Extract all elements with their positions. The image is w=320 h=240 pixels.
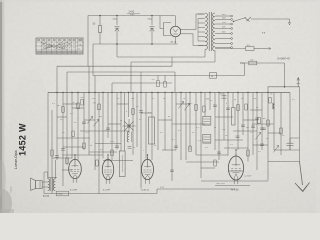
svg-text:50k: 50k bbox=[131, 98, 134, 100]
wire bbox=[158, 76, 165, 82]
label a b bbox=[262, 33, 266, 35]
label ECH 4 b bbox=[103, 190, 110, 192]
wire heater lead right bbox=[214, 51, 216, 63]
wire mains line bbox=[251, 18, 290, 20]
wire main bus bbox=[48, 92, 290, 94]
wire y83 left drop bbox=[111, 83, 113, 93]
resistor bbox=[258, 118, 266, 124]
capacitor bbox=[255, 118, 259, 120]
IF coil lower bbox=[203, 135, 211, 144]
transformer mains tap 110 bbox=[215, 32, 233, 35]
capacitor bbox=[241, 125, 245, 127]
tube socket voltage table bbox=[36, 38, 83, 54]
loudspeaker bbox=[31, 178, 43, 190]
svg-text:25k: 25k bbox=[222, 129, 225, 131]
resistor bbox=[81, 100, 84, 106]
output transformer bbox=[48, 178, 56, 191]
label +50u bbox=[112, 18, 118, 20]
svg-text:E BF11: E BF11 bbox=[142, 190, 150, 192]
wire left drop to main bus bbox=[56, 66, 58, 92]
wire tube V2 top cap bbox=[107, 154, 108, 159]
svg-text:6,3V: 6,3V bbox=[110, 141, 115, 143]
resistor bbox=[66, 158, 69, 164]
svg-text:47k: 47k bbox=[206, 99, 209, 101]
boxed label perm dyn bbox=[56, 191, 68, 196]
svg-text:Loewe-Opta: Loewe-Opta bbox=[14, 150, 18, 169]
IF coil upper bbox=[203, 117, 211, 126]
junction bbox=[116, 43, 153, 45]
wire heater drop x117 bbox=[116, 44, 118, 57]
wire bus y66 extension bbox=[88, 65, 172, 67]
svg-text:8k: 8k bbox=[168, 116, 170, 118]
wire speaker to OT top bbox=[42, 181, 48, 183]
label AZ 11 bbox=[171, 40, 177, 43]
resistor bbox=[132, 106, 140, 114]
svg-text:B 724: B 724 bbox=[43, 196, 50, 198]
wire speaker to OT bottom bbox=[42, 186, 48, 188]
fuse F1 0.8A bbox=[246, 45, 255, 51]
wire heater line y57 bbox=[117, 56, 205, 58]
resistor tall output bbox=[232, 108, 235, 126]
label D=54B7=57 bbox=[278, 58, 291, 61]
wire rectifier anode to HV top bbox=[181, 14, 205, 30]
capacitor bus bbox=[220, 94, 227, 99]
svg-text:P.Dyn: P.Dyn bbox=[58, 194, 63, 196]
resistor bbox=[93, 103, 100, 110]
capacitor C elko +50u second bbox=[150, 16, 155, 45]
transformer primary tap wire bbox=[198, 13, 205, 15]
resistor bbox=[237, 105, 240, 111]
wire bus into shield bbox=[160, 16, 164, 29]
wire bottom rail step bbox=[156, 189, 158, 194]
svg-text:2×50: 2×50 bbox=[129, 11, 135, 14]
label ECH 4 bbox=[70, 189, 77, 191]
wire rectifier anode2 to HV bottom bbox=[180, 34, 204, 46]
wire bus y83 bbox=[112, 82, 172, 84]
tube V2 ECH4 bbox=[102, 157, 113, 184]
capacitor bbox=[260, 128, 264, 130]
brand Loewe-Opta (rotated) bbox=[14, 150, 18, 169]
tube V4 AL4 output bbox=[228, 154, 243, 185]
tube V1 ECH4 bbox=[69, 157, 82, 183]
bus junction dots bbox=[56, 92, 268, 93]
wire y72 left drop bbox=[66, 72, 68, 93]
transformer primary tap wire bbox=[198, 27, 205, 29]
svg-text:4k: 4k bbox=[90, 145, 92, 147]
resistor bbox=[267, 120, 270, 126]
svg-text:2k: 2k bbox=[133, 147, 135, 149]
svg-text:Uab 700V: Uab 700V bbox=[216, 183, 226, 185]
resistor bbox=[83, 143, 86, 149]
capacitor bbox=[106, 128, 110, 130]
svg-text:1M: 1M bbox=[246, 127, 249, 129]
transformer primary tap wire bbox=[198, 18, 205, 20]
capacitor bbox=[174, 146, 178, 148]
resistor bbox=[111, 150, 114, 156]
capacitor bbox=[213, 105, 217, 107]
rectifier GL box bbox=[210, 73, 217, 79]
resistor lamp box 0.4 bbox=[249, 59, 257, 64]
resistor bbox=[203, 106, 206, 112]
wire y75 corner up right bbox=[240, 63, 245, 76]
wire OT primary up2 bbox=[44, 172, 48, 194]
tube V3 EBF11 bbox=[142, 157, 154, 184]
resistor bbox=[72, 131, 75, 137]
transformer mains tap aux bbox=[215, 47, 233, 49]
transformer mains tap aux bbox=[215, 38, 233, 40]
label B 724 bbox=[43, 196, 50, 198]
svg-text:2k: 2k bbox=[234, 99, 236, 101]
svg-text:1452 W: 1452 W bbox=[18, 123, 28, 156]
capacitor bbox=[260, 144, 264, 146]
title model 1452 W (rotated) bbox=[18, 123, 28, 156]
wire tap collect vertical bbox=[197, 19, 199, 42]
resistor bbox=[280, 128, 283, 134]
capacitor bbox=[262, 128, 266, 130]
label voltage note bbox=[216, 183, 226, 185]
resistor bbox=[245, 104, 248, 110]
capacitor on right feed bbox=[287, 138, 300, 150]
wire tube V4 top cap bbox=[235, 149, 236, 156]
small print (rotated) bbox=[11, 186, 13, 193]
power transformer TR1 bbox=[205, 12, 215, 51]
wire return drop bbox=[92, 44, 94, 76]
wire fuse line bbox=[215, 48, 267, 50]
svg-text:1M: 1M bbox=[99, 116, 102, 118]
transformer primary tap wire bbox=[198, 31, 205, 33]
wire ground return rail bbox=[93, 43, 178, 45]
capacitor bbox=[61, 149, 65, 151]
pot arrow bbox=[255, 133, 260, 140]
wire y66 up to heater line bbox=[171, 57, 173, 66]
wire y72 right drop bbox=[174, 72, 176, 93]
pot arrow bbox=[184, 104, 189, 111]
wire mesh horizontal links bbox=[48, 104, 290, 178]
rectifier tube AZ11 bbox=[170, 16, 180, 45]
wire tube V3 top cap bbox=[147, 154, 148, 159]
wire vertical mesh columns bbox=[48, 66, 290, 193]
wire lamp line bbox=[240, 62, 285, 64]
wire bus y75.5 bbox=[93, 75, 245, 77]
transformer mains tap 240 bbox=[215, 14, 233, 17]
label 2x50uF bbox=[127, 11, 140, 17]
wire right feed down bbox=[299, 87, 301, 162]
IF box tall mid bbox=[149, 117, 155, 144]
transformer primary tap wire bbox=[198, 40, 205, 42]
wire bus y72 bbox=[67, 71, 175, 73]
shield bracket around rectifier bbox=[164, 23, 172, 36]
label AL4 bbox=[231, 189, 239, 192]
svg-text:6,3V: 6,3V bbox=[160, 187, 165, 189]
junction bbox=[99, 15, 153, 17]
label bottom note bbox=[160, 187, 165, 189]
resistor bbox=[190, 103, 198, 110]
earth arrow (chassis) bbox=[295, 162, 310, 192]
coil bbox=[127, 132, 132, 143]
arrow fuse end bbox=[267, 47, 271, 50]
wire OT primary up bbox=[54, 160, 56, 179]
wire B+ top rail bbox=[88, 15, 175, 17]
junction bbox=[284, 86, 286, 88]
capacitor bbox=[139, 111, 143, 113]
wire heater drop x131 bbox=[130, 62, 132, 93]
pot arrow bbox=[273, 146, 278, 153]
wire bottom rail left bbox=[44, 193, 157, 195]
wire mains drop bbox=[288, 19, 290, 25]
svg-text:Funkw.: Funkw. bbox=[11, 186, 13, 193]
capacitor bbox=[55, 156, 59, 158]
svg-text:0,8: 0,8 bbox=[247, 45, 250, 47]
resistor bbox=[214, 160, 217, 166]
resistor bbox=[96, 160, 99, 166]
wire transformer HV bottom lead bbox=[204, 50, 206, 58]
svg-text:0,4: 0,4 bbox=[251, 59, 254, 61]
transformer mains tap 150 bbox=[215, 22, 233, 25]
resistor bbox=[57, 105, 65, 112]
label EBF 11 bbox=[142, 190, 150, 192]
transformer primary tap wire bbox=[198, 45, 205, 47]
resistor bbox=[189, 146, 192, 152]
resistor bbox=[51, 150, 54, 156]
svg-text:ca 250V: ca 250V bbox=[244, 176, 252, 178]
wire bottom rail to earth bbox=[268, 161, 300, 163]
wire feed to grid bus bbox=[57, 65, 88, 67]
mains selector arm bbox=[233, 18, 246, 23]
transformer primary tap wire bbox=[198, 36, 205, 38]
resistor bbox=[72, 102, 79, 109]
capacitor bbox=[82, 122, 86, 124]
mains switch contact bbox=[245, 17, 252, 22]
band switch starburst bbox=[123, 119, 136, 133]
transformer mains tap aux bbox=[215, 43, 233, 45]
transformer mains tap 125 bbox=[215, 27, 233, 30]
coil antenna bbox=[273, 103, 275, 109]
svg-text:E CH4: E CH4 bbox=[103, 190, 110, 192]
capacitor bbox=[226, 108, 230, 110]
scattered value labels bbox=[52, 94, 296, 154]
capacitor bbox=[170, 170, 174, 172]
IF box tall left bbox=[119, 151, 125, 177]
svg-text:AZ 11: AZ 11 bbox=[171, 40, 177, 43]
capacitor bbox=[217, 152, 221, 154]
svg-text:2M: 2M bbox=[57, 105, 60, 107]
svg-text:+50µ: +50µ bbox=[147, 18, 153, 20]
svg-text:1M: 1M bbox=[263, 118, 266, 120]
pot arrow bbox=[178, 102, 183, 109]
capacitor bbox=[236, 136, 240, 138]
wire cathode rail2 bbox=[215, 185, 250, 187]
wire drop to ant rail bbox=[284, 63, 286, 87]
label 50 bbox=[93, 23, 96, 26]
pot arrow bbox=[87, 117, 92, 124]
label bbox=[206, 99, 209, 101]
wire tube V1 top cap bbox=[74, 154, 75, 159]
svg-text:50µF: 50µF bbox=[130, 14, 136, 16]
resistor bbox=[247, 150, 250, 156]
transformer mains tap 220 bbox=[215, 18, 233, 21]
wire B+ left drop bbox=[87, 16, 89, 67]
svg-text:5k: 5k bbox=[120, 120, 122, 122]
svg-text:D=54B7=57: D=54B7=57 bbox=[278, 58, 291, 61]
svg-text:1k: 1k bbox=[183, 98, 185, 100]
svg-text:+50µ: +50µ bbox=[112, 18, 118, 20]
resistor bbox=[152, 79, 160, 87]
capacitor bbox=[128, 147, 132, 149]
wire antenna rail bbox=[268, 86, 300, 88]
wire heater line y62 bbox=[131, 61, 215, 63]
capacitor C elko +50u first bbox=[115, 16, 120, 45]
svg-text:E CH4: E CH4 bbox=[70, 189, 77, 191]
resistor bbox=[164, 82, 167, 88]
wire cathode rail bbox=[201, 180, 268, 182]
wire bottom rail right bbox=[157, 188, 235, 190]
capacitor bbox=[115, 146, 119, 148]
resistor R field 50 bbox=[99, 16, 102, 45]
capacitor bbox=[251, 126, 255, 128]
label +50u b bbox=[147, 18, 153, 20]
antenna terminal bbox=[297, 77, 300, 86]
svg-text:5k: 5k bbox=[214, 127, 216, 129]
resistor bbox=[269, 98, 272, 104]
pot arrow bbox=[93, 120, 98, 127]
label voltage note2 bbox=[244, 176, 252, 178]
svg-text:50k: 50k bbox=[253, 98, 256, 100]
transformer primary tap wire bbox=[198, 22, 205, 24]
